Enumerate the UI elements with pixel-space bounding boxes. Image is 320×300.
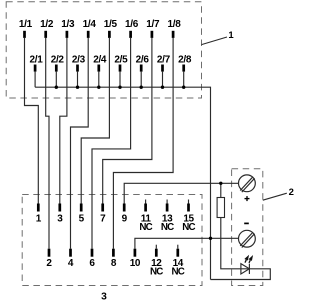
minus wire to terminal and pin 10 — [135, 238, 238, 248]
connector pin 2 — [48, 249, 51, 257]
LED light arrows — [245, 257, 252, 263]
junction dot 2/2 — [55, 86, 58, 89]
row 2 terminal pins 2/1..2/8 — [34, 65, 185, 72]
junction dot minus bus / minus wire — [209, 237, 212, 240]
row 1 terminal pins 1/1..1/8 — [23, 31, 174, 38]
svg-text:2/3: 2/3 — [72, 54, 86, 65]
svg-text:1/8: 1/8 — [167, 19, 181, 30]
wire 1/8 to pin 8 — [113, 38, 173, 249]
junction dot 2/6 — [140, 86, 143, 89]
terminal block box 1 (dashed) — [6, 2, 201, 98]
wire 1/4 to pin 4 — [71, 38, 89, 249]
connector pin 8 — [112, 249, 115, 257]
svg-text:2/5: 2/5 — [114, 54, 128, 65]
minus screw terminal — [239, 230, 256, 247]
svg-text:1/1: 1/1 — [19, 19, 33, 30]
power module box 2 (dashed) — [232, 169, 263, 286]
svg-text:1/5: 1/5 — [104, 19, 118, 30]
svg-text:1: 1 — [36, 214, 42, 225]
plus label — [245, 196, 250, 201]
svg-text:NC: NC — [182, 222, 195, 233]
svg-text:2/2: 2/2 — [51, 54, 65, 65]
LED D1 — [241, 264, 250, 274]
connector pin 1 — [37, 204, 40, 212]
svg-text:1/6: 1/6 — [125, 19, 139, 30]
stub 2/8 to minus bus — [183, 72, 185, 88]
resistor top wire — [220, 183, 222, 197]
connector pin 3 — [58, 204, 61, 212]
svg-text:10: 10 — [130, 258, 141, 269]
NC labels row 2 — [150, 267, 185, 278]
svg-text:NC: NC — [161, 222, 174, 233]
stub 2/7 to minus bus — [162, 72, 164, 88]
plus wire from pin 9 to plus terminal — [124, 183, 238, 203]
row 1 terminal labels 1/1..1/8 — [19, 19, 181, 30]
svg-text:5: 5 — [79, 214, 85, 225]
svg-text:1/4: 1/4 — [83, 19, 97, 30]
svg-text:3: 3 — [57, 214, 63, 225]
wire 1/1 to pin 1 — [25, 38, 39, 204]
LED return wire — [211, 218, 271, 280]
wire 1/2 to pin 2 — [46, 38, 49, 249]
svg-text:6: 6 — [89, 258, 95, 269]
stub 2/1 to minus bus — [34, 72, 36, 88]
connector pin 4 — [69, 249, 72, 257]
connector pin 5 — [80, 204, 83, 212]
connector pin 13 stub — [166, 200, 168, 204]
svg-text:NC: NC — [172, 267, 185, 278]
row 2 terminal labels 2/1..2/8 — [29, 54, 191, 65]
svg-text:2/7: 2/7 — [157, 54, 171, 65]
svg-text:1: 1 — [228, 30, 234, 41]
wire 1/5 to pin 5 — [81, 38, 109, 204]
minus label — [244, 222, 249, 224]
junction dot 2/7 — [161, 86, 164, 89]
callout leader 2 — [263, 193, 287, 200]
svg-text:2/6: 2/6 — [136, 54, 150, 65]
svg-text:2/1: 2/1 — [29, 54, 43, 65]
minus bus wire (horizontal + right vertical down to LED return) — [35, 87, 210, 279]
connector pin 11 stub — [145, 200, 147, 204]
svg-text:9: 9 — [122, 214, 128, 225]
callout leader 1 — [202, 37, 228, 45]
svg-text:1/3: 1/3 — [61, 19, 75, 30]
junction dot 2/3 — [76, 86, 79, 89]
junction dot plus wire / resistor — [219, 182, 222, 185]
svg-text:2/4: 2/4 — [93, 54, 107, 65]
wire 1/6 to pin 6 — [92, 38, 131, 249]
stub 2/3 to minus bus — [77, 72, 79, 88]
connector pin number labels row 1 — [36, 214, 195, 225]
stub 2/5 to minus bus — [119, 72, 121, 88]
svg-text:NC: NC — [139, 222, 152, 233]
stub 2/2 to minus bus — [55, 72, 57, 88]
svg-text:2/8: 2/8 — [178, 54, 192, 65]
stub 2/6 to minus bus — [140, 72, 142, 88]
connector pin 14 stub — [177, 245, 179, 249]
svg-text:2: 2 — [46, 258, 52, 269]
connector pin number labels row 2 — [46, 258, 183, 269]
connector pin 15 stub — [188, 200, 190, 204]
junction dot 2/8 — [182, 86, 185, 89]
wire 1/7 to pin 7 — [103, 38, 152, 204]
connector pin 12 stub — [155, 245, 157, 249]
junction dot 2/5 — [118, 86, 121, 89]
wire 1/3 to pin 3 — [60, 38, 67, 204]
svg-text:1/7: 1/7 — [146, 19, 160, 30]
svg-text:4: 4 — [68, 258, 74, 269]
svg-text:7: 7 — [100, 214, 106, 225]
junction dot 2/4 — [97, 86, 100, 89]
stub 2/4 to minus bus — [98, 72, 100, 88]
plus screw terminal — [239, 175, 256, 192]
svg-text:3: 3 — [101, 291, 107, 300]
connector pin 9 — [123, 204, 126, 212]
connector box 3 (dashed) — [22, 195, 202, 286]
connector pin 10 — [134, 249, 137, 257]
resistor R (current limiting) — [217, 198, 224, 218]
svg-text:NC: NC — [150, 267, 163, 278]
NC labels row 1 — [139, 222, 195, 233]
svg-text:8: 8 — [111, 258, 117, 269]
svg-text:2: 2 — [289, 187, 294, 198]
connector pin 6 — [91, 249, 94, 257]
connector pin 7 — [101, 204, 104, 212]
svg-text:1/2: 1/2 — [40, 19, 54, 30]
